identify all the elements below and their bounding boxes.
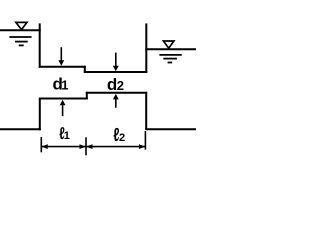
right water-level symbol dash 2 bbox=[163, 58, 177, 60]
label d2 bbox=[107, 75, 124, 94]
dimension arrowhead l1 right bbox=[80, 144, 87, 149]
wire bed step vertical bbox=[86, 92, 88, 100]
left water-level symbol triangle bbox=[16, 22, 27, 29]
label l1 bbox=[59, 125, 70, 144]
wire right water-surface line bbox=[145, 48, 196, 50]
svg-text:2: 2 bbox=[119, 132, 125, 144]
wire top step vertical bbox=[84, 66, 86, 73]
svg-text:2: 2 bbox=[117, 78, 124, 93]
wire upper middle line bbox=[39, 66, 86, 68]
svg-text:1: 1 bbox=[61, 77, 68, 92]
right wall bbox=[145, 23, 147, 73]
wire lower middle line bbox=[84, 71, 148, 73]
wire bed right step vertical bbox=[145, 92, 147, 130]
arrow up under d1 bbox=[60, 100, 66, 117]
label l2 bbox=[113, 124, 125, 145]
dimension arrowhead l2 right bbox=[139, 144, 146, 149]
arrow up under d2 bbox=[113, 94, 119, 108]
wire left water-surface line bbox=[0, 29, 41, 31]
arrow d2 down bbox=[113, 53, 119, 72]
left water-level symbol dash 2 bbox=[15, 41, 28, 43]
wire bed bottom-right line bbox=[145, 128, 196, 130]
wire bed mid upper line bbox=[86, 92, 147, 94]
arrow d1 down bbox=[58, 47, 64, 65]
dimension arrowhead l2 left bbox=[86, 144, 93, 149]
wire bed mid lower line bbox=[39, 98, 88, 100]
label d1 bbox=[53, 74, 69, 93]
wire bed left step vertical bbox=[39, 99, 41, 131]
dimension extension tick right bbox=[144, 131, 146, 150]
dimension extension tick left bbox=[40, 137, 42, 152]
dimension extension tick middle bbox=[85, 137, 87, 155]
left wall bbox=[39, 23, 41, 67]
right water-level symbol dash 1 bbox=[159, 54, 181, 56]
wire bed bottom-left line bbox=[0, 128, 41, 130]
right water-level symbol dash 3 bbox=[168, 62, 173, 64]
dimension line l1-l2 bbox=[41, 146, 145, 148]
left water-level symbol dash 3 bbox=[19, 44, 24, 46]
left water-level symbol dash 1 bbox=[9, 36, 31, 38]
dimension arrowhead l1 left bbox=[41, 144, 48, 149]
right water-level symbol triangle bbox=[163, 41, 174, 48]
svg-text:1: 1 bbox=[64, 130, 70, 142]
